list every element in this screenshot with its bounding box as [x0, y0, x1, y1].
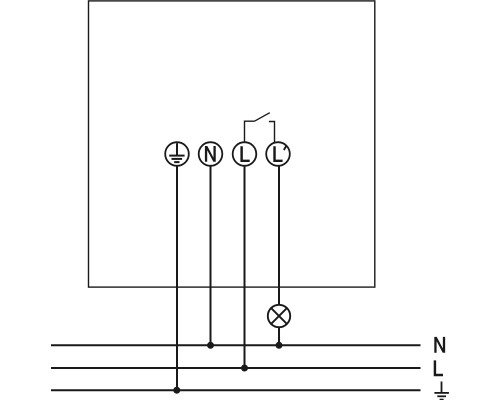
- junction L wire / L bus: [241, 365, 248, 372]
- ground symbol (PE bus): [434, 382, 449, 400]
- bus line L: [51, 367, 421, 369]
- label N: [205, 146, 216, 162]
- wire N down: [210, 166, 212, 345]
- terminal L: [233, 142, 257, 166]
- junction PE wire / PE bus: [173, 387, 180, 394]
- label L (bus): [434, 360, 443, 376]
- terminal L': [266, 142, 290, 166]
- label L: [273, 146, 282, 162]
- wire PE down: [176, 166, 178, 390]
- wire L' down to lamp: [278, 166, 280, 305]
- wire L down: [244, 166, 246, 368]
- switch fixed contact to L': [269, 122, 275, 144]
- label L: [240, 146, 249, 162]
- prime mark: [284, 146, 286, 150]
- earth symbol in PE terminal: [169, 143, 184, 162]
- switch S: wire from L up: [245, 121, 255, 142]
- lamp E1: [268, 305, 290, 327]
- bus line PE: [51, 389, 421, 391]
- wire lamp to N bus: [278, 327, 280, 345]
- terminal N: [199, 142, 223, 166]
- junction N wire / N bus: [207, 342, 214, 349]
- switch blade: [255, 113, 270, 122]
- bus line N: [51, 344, 421, 346]
- label N (bus): [434, 337, 445, 353]
- device box: [89, 1, 375, 287]
- terminal PE: [165, 142, 189, 166]
- junction lamp / N bus: [276, 342, 283, 349]
